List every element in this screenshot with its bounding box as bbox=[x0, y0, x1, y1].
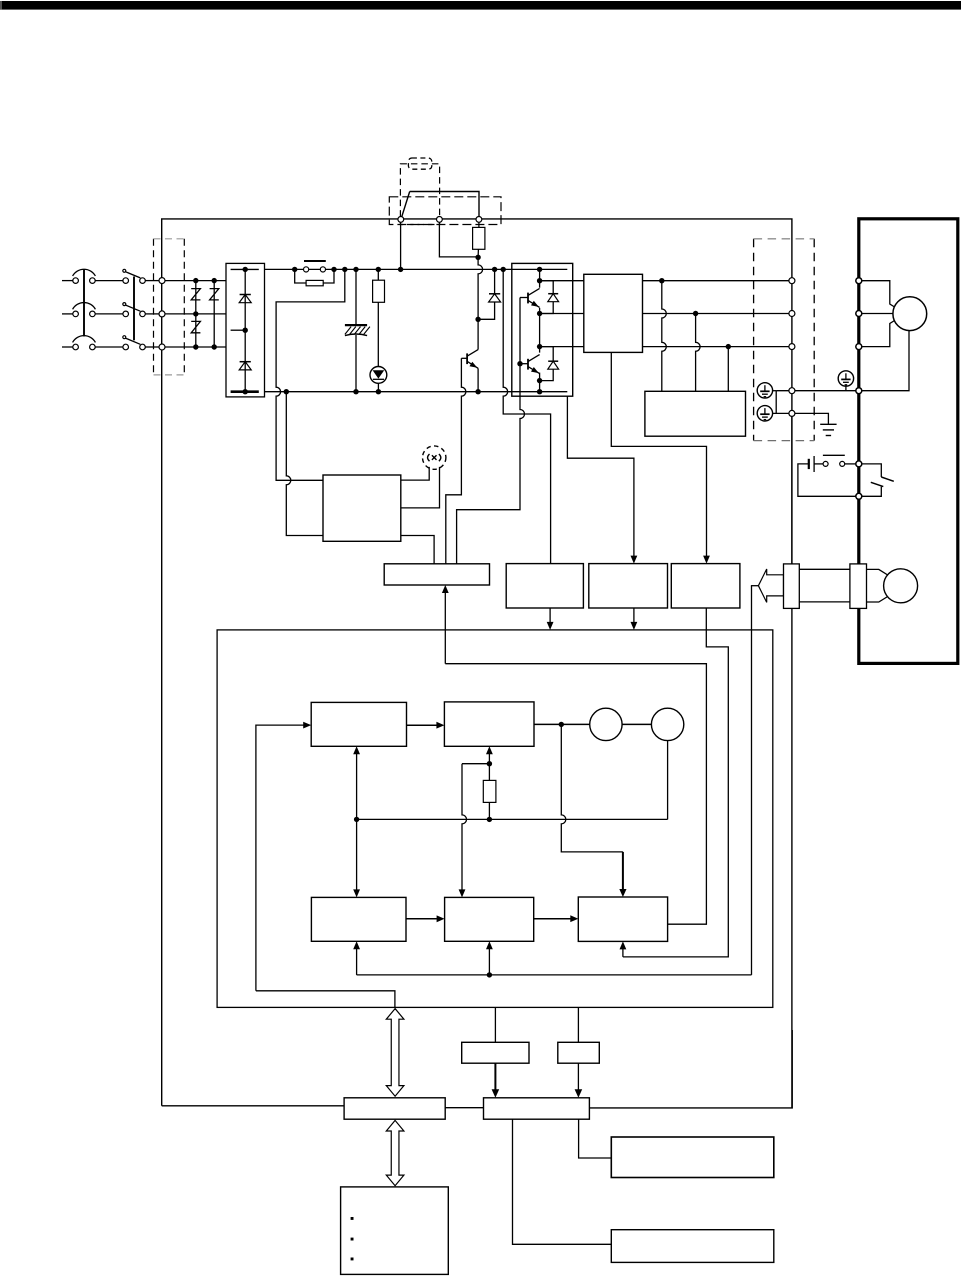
wire arrow into B4 bottom bbox=[488, 949, 490, 975]
wire battery return bbox=[798, 464, 856, 496]
IGBT collector junction U bbox=[537, 278, 542, 283]
junction dots column 2 bbox=[212, 278, 217, 283]
overcurrent protection box bbox=[506, 564, 583, 608]
wire comparator link bbox=[606, 723, 668, 725]
motor terminal E bbox=[856, 388, 862, 394]
wire L3 MC to filter terminal bbox=[145, 346, 159, 348]
wire motor U lead bbox=[862, 281, 897, 309]
rectifier AC mid tap bbox=[231, 329, 246, 331]
junction dots capacitor bbox=[353, 267, 358, 272]
junction dot model bbox=[487, 761, 492, 766]
wire L2 supply lead bbox=[62, 313, 73, 315]
MC mechanical link bar bbox=[133, 277, 135, 341]
wire arrow into B3 bottom bbox=[356, 949, 358, 975]
contactor MC pole row1 bbox=[123, 278, 129, 284]
wire IGBT fault output bbox=[567, 396, 634, 556]
rectifier bridge box bbox=[226, 263, 265, 397]
junction dot regen node bbox=[475, 317, 480, 322]
motor terminal battery- bbox=[856, 493, 862, 499]
motor terminal battery+ bbox=[856, 461, 862, 467]
wire voltage sense bbox=[503, 269, 550, 563]
header bar bbox=[0, 1, 961, 10]
amplifier input terminal L2 bbox=[159, 311, 165, 317]
IGBT gate drive wire bbox=[457, 298, 525, 564]
wire arrow into B2 bottom bbox=[488, 754, 490, 764]
wire L2 MCCB to MC bbox=[95, 313, 123, 315]
wire feedback through model bbox=[561, 724, 623, 852]
circuit breaker MCCB pole contacts row2 bbox=[73, 311, 79, 317]
encoder bbox=[884, 569, 918, 603]
wire E1 to E2 bbox=[445, 1107, 483, 1109]
motor power connector dashed box bbox=[753, 239, 755, 441]
IGBT main vertical bbox=[539, 269, 541, 287]
battery switch bbox=[823, 461, 828, 466]
amplifier bottom edge (right segment from bus box) bbox=[589, 1030, 792, 1108]
current detector box bbox=[584, 274, 643, 352]
encoder connector amplifier side bbox=[784, 564, 800, 609]
encoder signal hollow arrow bbox=[758, 569, 783, 602]
motor terminal V bbox=[856, 311, 862, 317]
voltage control box B5 bbox=[578, 897, 667, 941]
wire L3 supply lead bbox=[62, 346, 73, 348]
wire motor W lead bbox=[862, 319, 897, 347]
motor terminal W bbox=[856, 344, 862, 350]
terminal C bbox=[437, 217, 443, 223]
charge lamp bbox=[370, 367, 387, 384]
voltage detection box bbox=[589, 564, 668, 608]
wire B1 input arrow bbox=[256, 725, 304, 991]
circuit breaker MCCB pole contacts row1 bbox=[73, 278, 79, 284]
MCCB arc row2 bbox=[73, 303, 96, 310]
regen option small dashed box bbox=[408, 158, 431, 169]
wire arrow into B1 bottom bbox=[356, 754, 358, 820]
wire protection to controller bbox=[549, 608, 551, 622]
current command box B1 bbox=[311, 702, 406, 746]
wire PE2 to earth bbox=[773, 413, 829, 424]
wire L1 MC to filter terminal bbox=[145, 280, 159, 282]
regen option dashed box bbox=[400, 164, 439, 225]
IGBT freewheel diode D4 bbox=[540, 281, 554, 294]
wire L1 MCCB to MC bbox=[95, 280, 123, 282]
analog monitor box G2 bbox=[611, 1230, 774, 1263]
wire encoder cable shield bbox=[791, 416, 793, 564]
junction dots inrush bbox=[292, 267, 297, 272]
amplifier terminal V bbox=[789, 311, 795, 317]
amplifier input terminal L3 bbox=[159, 344, 165, 350]
contactor MC pole row2 bbox=[123, 311, 129, 317]
wire resistor to lamp bbox=[377, 302, 379, 366]
wire U phase bbox=[540, 280, 584, 282]
encoder bracket bbox=[867, 569, 889, 575]
wire capacitor top bbox=[355, 269, 357, 324]
terminal P bbox=[398, 217, 404, 223]
controller boundary box bbox=[217, 630, 773, 1008]
inrush resistor R1 loop bbox=[295, 269, 306, 283]
wire U to dynamic brake bbox=[662, 281, 667, 392]
wire terminal D to resistor bbox=[478, 222, 480, 227]
wire L3 into rectifier bbox=[165, 346, 226, 348]
speed control box B4 bbox=[445, 897, 534, 941]
wire V phase bbox=[540, 313, 584, 315]
line filter dashed box bbox=[153, 239, 155, 375]
protective earth symbol PE1 bbox=[757, 383, 772, 398]
wire model loop resistor feed bbox=[462, 764, 489, 890]
wire capacitor bottom bbox=[355, 335, 357, 392]
surge absorber Z1 bbox=[191, 289, 200, 300]
IGBT module box bbox=[512, 263, 573, 396]
servo motor enclosure (thick box) bbox=[859, 219, 958, 664]
wire encoder feedback stub bbox=[751, 585, 759, 587]
surge absorber column 2 wire bbox=[213, 281, 215, 347]
wire encoder feedback drop bbox=[751, 586, 753, 975]
inrush relay contact bbox=[304, 267, 309, 272]
option list bullet 3 bbox=[351, 1258, 354, 1261]
position comparator circle bbox=[651, 708, 683, 740]
wire P terminal riser bbox=[400, 222, 402, 269]
wire current detector output bbox=[611, 352, 706, 556]
IGBT emitter junction bbox=[537, 311, 542, 316]
current detection box bbox=[671, 564, 740, 608]
inrush relay bar bbox=[304, 260, 326, 262]
display box D1 bbox=[462, 1042, 529, 1063]
circuit breaker MCCB pole contacts row3 bbox=[73, 344, 79, 350]
encoder connector motor side bbox=[850, 564, 867, 609]
regenerative resistor R3 bbox=[473, 227, 485, 249]
wire W phase bbox=[540, 346, 584, 348]
amplifier terminal U bbox=[789, 278, 795, 284]
wire regen base drive bbox=[446, 358, 466, 564]
wire B5 output bbox=[445, 664, 706, 925]
wire L2 MC to filter terminal bbox=[145, 313, 159, 315]
rectifier positive bar bbox=[231, 268, 259, 270]
IGBT bus junction dots bbox=[537, 267, 542, 272]
wire regen resistor down bbox=[478, 249, 483, 319]
capacitor C1 bbox=[345, 324, 367, 326]
regen transistor Q1 bbox=[461, 357, 467, 359]
amplifier terminal PE a bbox=[789, 388, 795, 394]
wire motor frame ground bbox=[859, 331, 909, 391]
amplifier bottom edge (left segment to interface box) bbox=[162, 1105, 344, 1107]
IGBT collector junction V bbox=[537, 344, 542, 349]
amplifier terminal PE b bbox=[789, 410, 795, 416]
base amplifier box bbox=[384, 564, 489, 585]
option list bullet 1 bbox=[351, 1217, 354, 1220]
battery B1 bbox=[808, 459, 810, 469]
wire terminal C drop bbox=[439, 222, 478, 257]
wire V to dynamic brake bbox=[696, 314, 701, 392]
control power supply box bbox=[323, 475, 401, 541]
wire controller feedback corner bbox=[256, 991, 395, 1008]
servo motor M bbox=[893, 297, 927, 331]
regen jumper bus bar bbox=[401, 192, 479, 220]
digital I/O box G1 bbox=[611, 1137, 774, 1178]
amplifier input terminal L1 bbox=[159, 278, 165, 284]
protective earth symbol PE3 bbox=[838, 371, 853, 386]
P bus wire bbox=[265, 268, 568, 270]
wire into D2 bbox=[577, 1007, 579, 1042]
wire PSU output 2 bbox=[401, 467, 440, 508]
rectifier diode D2 bbox=[239, 362, 251, 370]
wire PSU output 3 bbox=[401, 536, 434, 564]
arrow D1 to bus box bbox=[494, 1063, 496, 1090]
wire PE to motor frame bbox=[776, 390, 859, 392]
junction dot N feed bbox=[284, 389, 289, 394]
wire L3 MCCB to MC bbox=[95, 346, 123, 348]
wire into speed calc bbox=[356, 819, 358, 889]
option list bullet 2 bbox=[351, 1238, 354, 1241]
wire regen emitter bbox=[477, 368, 479, 391]
arrow into voltage control bottom bbox=[622, 949, 624, 957]
rectifier internal wire bbox=[244, 269, 246, 391]
wire arrow into base amp bbox=[444, 593, 446, 664]
motor terminal U bbox=[856, 278, 862, 284]
IGBT transistor Q2 bbox=[520, 297, 528, 299]
wire B3 to B4 arrow bbox=[406, 918, 437, 920]
cooling fan symbol bbox=[423, 446, 446, 469]
wire comparator2 feedback bbox=[667, 741, 669, 820]
wire voltage det to controller bbox=[633, 608, 635, 622]
encoder cable bbox=[799, 568, 850, 570]
surge absorber Z3 bbox=[210, 289, 219, 300]
model interface box E1 bbox=[344, 1098, 445, 1119]
wire L1 into rectifier bbox=[165, 280, 226, 282]
surge absorber column 1 wire bbox=[195, 281, 197, 347]
wire PSU output 1 bbox=[401, 467, 429, 480]
IGBT transistor Q3 bbox=[520, 363, 528, 365]
N bus wire bbox=[265, 391, 568, 393]
wire current det output bbox=[623, 608, 728, 957]
wire PE link bbox=[773, 390, 777, 392]
discharge resistor R2 bbox=[373, 280, 385, 302]
external controller box F bbox=[341, 1187, 449, 1275]
rectifier diode D1 bbox=[239, 295, 251, 303]
MCCB arc row3 bbox=[73, 336, 96, 343]
regen freewheel diode D3 bbox=[494, 269, 496, 293]
speed comparator circle bbox=[590, 708, 622, 740]
IGBT emitter junction 2 bbox=[537, 378, 542, 383]
bus hollow double arrow lower bbox=[386, 1120, 404, 1185]
wire control power P feed bbox=[276, 269, 345, 480]
rectifier negative bar bbox=[231, 390, 259, 393]
MCCB arc row1 bbox=[73, 269, 96, 276]
wire B2 to comparator bbox=[534, 723, 606, 725]
wire motor V lead bbox=[862, 313, 893, 315]
wire switch to terminal bbox=[845, 463, 856, 465]
bus interface box E2 bbox=[484, 1098, 590, 1119]
terminal block dashed box bbox=[389, 197, 501, 225]
servo amplifier enclosure (outer boundary) bbox=[162, 219, 792, 1106]
arrow D2 to bus box bbox=[577, 1063, 579, 1090]
protective earth symbol PE2 bbox=[757, 406, 772, 421]
wire discharge top bbox=[377, 269, 379, 280]
wire L1 supply lead bbox=[62, 280, 73, 282]
wire lower feedback line bbox=[357, 974, 752, 976]
feedback resistor R4 bbox=[488, 764, 490, 781]
terminal D bbox=[476, 217, 482, 223]
IGBT freewheel diode D5 bbox=[540, 347, 554, 362]
wire E2 to I/O bbox=[579, 1119, 612, 1158]
wire lamp to N bus bbox=[377, 383, 379, 391]
junction dots column 1 bbox=[193, 278, 198, 283]
speed calculation box B3 bbox=[311, 897, 406, 941]
junction dot P feed bbox=[342, 267, 347, 272]
MCCB trip bar bbox=[83, 269, 85, 336]
wire break to next axis bbox=[862, 464, 882, 477]
contactor MC pole row3 bbox=[123, 344, 129, 350]
bus hollow double arrow upper bbox=[386, 1009, 404, 1097]
wire into D1 bbox=[494, 1007, 496, 1042]
wire PE3 stub bbox=[845, 386, 847, 391]
dynamic brake box bbox=[645, 391, 746, 436]
wire L2 into rectifier bbox=[165, 313, 226, 315]
earth ground symbol bbox=[820, 423, 836, 425]
wire inner feedback line bbox=[357, 818, 668, 820]
amplifier terminal W bbox=[789, 344, 795, 350]
keys box D2 bbox=[558, 1042, 600, 1063]
wire E2 to servo config bbox=[513, 1119, 612, 1244]
current control box B2 bbox=[444, 702, 534, 746]
wire control power N feed bbox=[286, 392, 323, 536]
surge absorber Z2 bbox=[191, 321, 200, 332]
wire W to dynamic brake bbox=[727, 347, 729, 392]
wire B4 to B5 arrow bbox=[534, 918, 571, 920]
wire B1 to B2 arrow bbox=[407, 724, 437, 726]
wire regen collector bbox=[477, 319, 479, 349]
